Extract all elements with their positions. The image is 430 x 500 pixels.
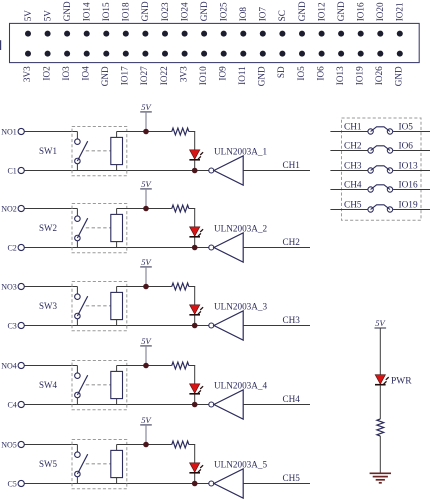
svg-text:C4: C4 [7,401,16,410]
svg-text:SD: SD [276,66,286,78]
svg-text:GND: GND [140,1,150,21]
svg-text:SW1: SW1 [39,146,57,156]
svg-text:ULN2003A_3: ULN2003A_3 [214,301,267,311]
svg-text:C3: C3 [7,322,16,331]
svg-text:GND: GND [297,1,307,21]
svg-text:C5: C5 [7,480,16,489]
svg-text:GND: GND [100,66,110,86]
svg-text:GND: GND [394,66,404,86]
svg-text:CH5: CH5 [283,473,301,483]
svg-text:C2: C2 [7,244,16,253]
svg-text:IO2: IO2 [41,66,51,81]
svg-text:GND: GND [62,1,72,21]
svg-text:IO25: IO25 [219,2,229,21]
svg-text:5V: 5V [42,10,52,22]
svg-text:IO5: IO5 [296,66,306,81]
svg-text:SW3: SW3 [39,301,58,311]
svg-text:C1: C1 [7,167,16,176]
svg-text:ULN2003A_5: ULN2003A_5 [214,459,267,469]
svg-text:GND: GND [336,1,346,21]
svg-text:IO10: IO10 [198,66,208,85]
svg-text:IO20: IO20 [375,2,385,21]
svg-text:CH1: CH1 [283,160,301,170]
svg-text:IO21: IO21 [395,2,405,21]
svg-text:CH4: CH4 [283,394,301,404]
svg-text:IO24: IO24 [179,2,189,21]
svg-text:SW5: SW5 [39,459,58,469]
svg-text:IO14: IO14 [82,2,92,21]
svg-text:IO22: IO22 [159,66,169,85]
svg-text:NO1: NO1 [1,128,17,137]
svg-text:NO4: NO4 [1,362,17,371]
svg-text:3V3: 3V3 [22,66,32,82]
svg-text:IO18: IO18 [121,2,131,21]
svg-text:IO23: IO23 [160,2,170,21]
svg-text:5V: 5V [23,10,33,22]
svg-text:PWR: PWR [391,377,412,387]
svg-text:IO27: IO27 [139,66,149,85]
svg-text:NO3: NO3 [1,283,17,292]
svg-text:SW4: SW4 [39,380,58,390]
svg-text:IO16: IO16 [356,2,366,21]
svg-text:IO8: IO8 [238,7,248,22]
svg-text:ULN2003A_1: ULN2003A_1 [214,146,267,156]
svg-text:IO15: IO15 [101,2,111,21]
svg-text:IO13: IO13 [335,66,345,85]
svg-text:IO7: IO7 [258,7,268,22]
svg-text:IO11: IO11 [237,66,247,85]
svg-text:3V3: 3V3 [178,66,188,82]
svg-text:ULN2003A_4: ULN2003A_4 [214,380,267,390]
svg-text:ULN2003A_2: ULN2003A_2 [214,223,267,233]
svg-text:NO2: NO2 [1,205,17,214]
svg-text:IO4: IO4 [81,66,91,81]
svg-text:CH2: CH2 [283,237,301,247]
svg-text:SW2: SW2 [39,223,57,233]
svg-text:GND: GND [199,1,209,21]
svg-text:IO26: IO26 [374,66,384,85]
svg-text:SC: SC [277,10,287,21]
svg-text:CH3: CH3 [283,315,301,325]
svg-text:IO6: IO6 [315,66,325,81]
svg-text:IO12: IO12 [316,2,326,21]
svg-text:IO19: IO19 [355,66,365,85]
svg-text:NO5: NO5 [1,441,17,450]
svg-text:GND: GND [257,66,267,86]
svg-text:IO3: IO3 [61,66,71,81]
svg-text:IO17: IO17 [120,66,130,85]
svg-text:IO9: IO9 [218,66,228,81]
